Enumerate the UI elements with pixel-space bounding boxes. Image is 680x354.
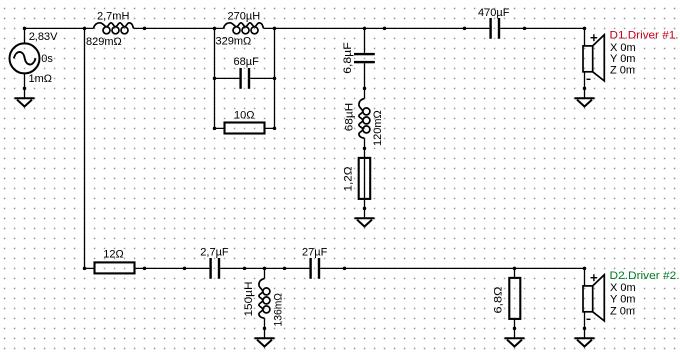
capacitor C 68uF	[239, 68, 250, 89]
ground (driver2)	[575, 328, 595, 346]
inductor L2 270uH	[224, 23, 264, 34]
speaker D2	[583, 268, 604, 328]
ground (150uH branch)	[255, 328, 275, 346]
ground (driver1)	[575, 88, 595, 106]
wire leads of L 150uH	[264, 268, 266, 328]
wire bottom rail: C 27uF to driver D2	[320, 267, 584, 269]
speaker D1	[583, 28, 604, 88]
svg-text:329mΩ: 329mΩ	[216, 36, 252, 48]
wire leads of C 68uF	[215, 77, 275, 79]
svg-text:829mΩ: 829mΩ	[86, 36, 122, 48]
junction node (264.5,328.4)	[263, 327, 267, 331]
svg-text:120mΩ: 120mΩ	[372, 110, 384, 146]
inductor L 150uH (vertical)	[259, 278, 270, 318]
inductor L1 2,7mH	[94, 23, 134, 34]
junction node (274.5,28.4)	[273, 27, 277, 31]
junction node (214.5,28.4)	[213, 27, 217, 31]
wire top rail: L2 to C 470uF	[264, 27, 490, 29]
svg-text:6,8µF: 6,8µF	[342, 42, 354, 74]
junction node (274.5,78.4)	[273, 77, 277, 81]
resistor R 6,8ohm (vertical)	[509, 278, 520, 319]
junction node (584.5,28.4)	[583, 27, 587, 31]
svg-text:0s: 0s	[41, 53, 53, 65]
wire shunt branch: C 6,8uF leads	[364, 28, 366, 98]
svg-text:12Ω: 12Ω	[103, 248, 123, 260]
inductor L 68uH (vertical)	[359, 98, 370, 138]
svg-text:10Ω: 10Ω	[234, 110, 254, 122]
wire parallel-block right rail	[274, 28, 276, 128]
capacitor C 27uF	[309, 258, 320, 279]
svg-text:Y 0m: Y 0m	[610, 53, 635, 65]
wire top rail: source to L1	[25, 27, 94, 29]
svg-text:6,8Ω: 6,8Ω	[493, 287, 505, 314]
capacitor C 470uF	[489, 18, 500, 39]
ground (6,8ohm)	[505, 328, 525, 346]
junction node (364.5,148.4)	[363, 147, 367, 151]
junction node (274.5,128.4)	[273, 127, 277, 131]
junction node (244.5,268.4)	[243, 267, 247, 271]
capacitor C 6,8uF (vertical)	[354, 53, 375, 63]
svg-text:1mΩ: 1mΩ	[29, 73, 53, 85]
junction node (524.5,28.4)	[523, 27, 527, 31]
svg-text:1,2Ω: 1,2Ω	[343, 167, 355, 192]
resistor R 12ohm	[95, 262, 135, 273]
svg-text:150µH: 150µH	[243, 281, 255, 316]
wire left column: top rail to bottom rail	[84, 28, 86, 268]
ground (branch 1,2ohm)	[355, 208, 375, 226]
wire shunt branch: R 1,2ohm to ground	[364, 199, 366, 209]
junction node (184.5,268.4)	[183, 267, 187, 271]
wire bottom rail: R 12ohm to C 2,7uF	[135, 267, 210, 269]
capacitor C 2,7uF	[209, 258, 220, 279]
junction node (264.5,268.4)	[263, 267, 267, 271]
junction node (344.5,268.4)	[343, 267, 347, 271]
wire bottom rail: C 2,7uF to C 27uF	[220, 267, 309, 269]
wire bottom rail: corner to R 12ohm	[85, 267, 95, 269]
svg-text:68µF: 68µF	[234, 56, 260, 68]
junction node (144.5,268.4)	[143, 267, 147, 271]
junction node (584.5,268.4)	[583, 267, 587, 271]
junction node (364.5,88.4)	[363, 87, 367, 91]
junction node (364.5,208.4)	[363, 207, 367, 211]
junction node (514.5,328.4)	[513, 327, 517, 331]
voltage source V1	[10, 28, 40, 88]
junction node (384.5,28.4)	[383, 27, 387, 31]
svg-text:2,7mH: 2,7mH	[97, 11, 129, 23]
ground (source)	[15, 88, 35, 106]
wire parallel-block left rail	[214, 28, 216, 128]
junction node (584.5,88.4)	[583, 87, 587, 91]
junction node (24.5,28.4)	[23, 27, 27, 31]
resistor R 1,2ohm (vertical)	[359, 158, 371, 199]
junction node (464.5,28.4)	[463, 27, 467, 31]
svg-text:Z 0m: Z 0m	[610, 306, 635, 318]
junction node (214.5,128.4)	[213, 127, 217, 131]
svg-text:D2.Driver #2.: D2.Driver #2.	[610, 270, 680, 282]
junction node (144.5,28.4)	[143, 27, 147, 31]
wire leads of R 10ohm	[215, 127, 275, 129]
junction node (584.5,328.4)	[583, 327, 587, 331]
resistor R 10ohm	[225, 123, 265, 134]
junction node (214.5,78.4)	[213, 77, 217, 81]
junction node (284.5,268.4)	[283, 267, 287, 271]
junction node (514.5,268.4)	[513, 267, 517, 271]
svg-text:470µF: 470µF	[478, 7, 510, 19]
svg-text:Z 0m: Z 0m	[610, 65, 635, 77]
wire top rail: L1 to L2	[134, 27, 224, 29]
svg-text:27µF: 27µF	[302, 246, 328, 258]
svg-text:Y 0m: Y 0m	[610, 294, 635, 306]
svg-text:2,83V: 2,83V	[29, 31, 58, 43]
svg-text:2,7µF: 2,7µF	[200, 246, 229, 258]
svg-text:68µH: 68µH	[344, 103, 356, 132]
junction node (364.5,28.4)	[363, 27, 367, 31]
junction node (84.5,28.4)	[83, 27, 87, 31]
wire top rail: C 470uF to driver D1	[500, 27, 584, 29]
wire leads of R 6,8ohm	[514, 268, 516, 328]
junction node (84.5,268.4)	[83, 267, 87, 271]
junction node (24.5,88.4)	[23, 87, 27, 91]
svg-text:X 0m: X 0m	[610, 282, 636, 294]
svg-text:D1.Driver #1.: D1.Driver #1.	[610, 30, 679, 42]
svg-text:270µH: 270µH	[228, 11, 261, 23]
wire shunt branch: L 68uH to R 1,2ohm	[364, 138, 366, 199]
svg-text:136mΩ: 136mΩ	[273, 293, 285, 327]
